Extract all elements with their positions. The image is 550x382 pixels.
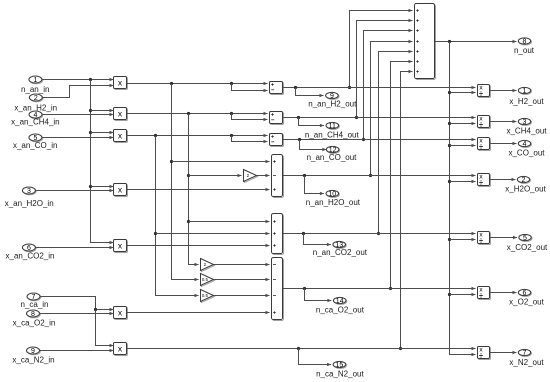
divide block for x_H2_out [479, 86, 491, 98]
junction CH4 fan tap [355, 116, 358, 119]
wire divide out to port 3 [490, 121, 517, 123]
wire port9 to PR7 in2 [40, 350, 114, 352]
wire port6 to PR5 in2 [36, 247, 114, 249]
svg-text:x_ca_N2_in: x_ca_N2_in [12, 356, 54, 365]
output port 5 x_CO2_out [520, 235, 532, 241]
product block PR2 n_an*x_CH4 [115, 109, 128, 121]
wire tap to port 14 [305, 289, 332, 301]
svg-text:3: 3 [523, 119, 527, 126]
svg-text:11: 11 [329, 123, 336, 130]
wire divide out to port 6 [490, 292, 517, 294]
wire divide out to port 7 [490, 352, 517, 354]
junction n_out tap [448, 40, 451, 43]
junction CO branch [230, 134, 233, 137]
output port 11 n_an_CH4_out [327, 123, 340, 129]
wire T3 out to S6 in2 [214, 279, 270, 281]
wire CO branch to S3 in2 [232, 136, 268, 142]
junction O2 fan tap [389, 287, 392, 290]
output port 13 n_an_CO2_out [334, 242, 347, 248]
input port 3 x_an_H2O_in [23, 188, 36, 195]
wire S5 out to divide D5 [283, 233, 476, 235]
junction H2 branch [230, 82, 233, 85]
wire S1 out to divide D1 [283, 87, 476, 89]
svg-text:x_O2_out: x_O2_out [509, 297, 544, 306]
wire n_an stub to PR4 in1 [91, 186, 114, 188]
svg-text:x_CO_out: x_CO_out [508, 149, 545, 158]
wire big sum out to port 8 [435, 41, 517, 43]
svg-text:n_ca_N2_out: n_ca_N2_out [316, 370, 364, 379]
big sum block n_out 7 inputs [416, 5, 436, 80]
divide block for x_N2_out [479, 348, 491, 360]
svg-text:0.5: 0.5 [202, 293, 209, 298]
svg-text:4: 4 [523, 141, 527, 148]
svg-text:n_an_H2_out: n_an_H2_out [308, 100, 357, 109]
svg-text:1: 1 [33, 77, 37, 84]
junction n_ca split [94, 308, 97, 311]
svg-text:n_an_CH4_out: n_an_CH4_out [305, 131, 360, 140]
junction H2 to S4 [170, 160, 173, 163]
wire H2O fan vertical to big sum [371, 42, 413, 176]
svg-text:x_an_CO2_in: x_an_CO2_in [6, 252, 55, 261]
junction n_an split [89, 78, 92, 81]
input port 4 x_an_CH4_in [30, 112, 43, 119]
svg-text:x_CO2_out: x_CO2_out [507, 243, 548, 252]
output port 3 x_CH4_out [519, 119, 531, 125]
input port 5 x_an_CO_in [30, 135, 43, 142]
wire H2 fan vertical to big sum [350, 11, 413, 88]
junction CH4 tap [187, 112, 190, 115]
product block PR5 n_an*x_CO2 [115, 241, 128, 253]
junction CO tap [154, 134, 157, 137]
wire tap to port 13 [304, 234, 331, 245]
wire PR6 out to S6 in4 [127, 312, 270, 314]
wire divide out to port 5 [490, 237, 518, 239]
output port 14 n_ca_O2_out [334, 298, 347, 304]
output port 2 x_H2O_out [518, 177, 530, 183]
svg-text:x_N2_out: x_N2_out [509, 358, 544, 367]
divide block for x_CO_out [479, 139, 491, 151]
wire CO fan vertical to big sum [364, 31, 413, 140]
svg-text:n_an_CO_out: n_an_CO_out [307, 153, 358, 162]
sum block S4 H2O 3 inputs [273, 156, 284, 198]
svg-text:7: 7 [523, 350, 527, 357]
wire n_an stub to PR2 in1 [91, 110, 114, 112]
wire H2 vertical to T3 [172, 84, 199, 280]
svg-text:n_out: n_out [514, 46, 535, 55]
output port 10 n_an_H2O_out [327, 191, 340, 197]
svg-text:8: 8 [523, 38, 527, 45]
svg-text:15: 15 [336, 362, 344, 369]
svg-text:5: 5 [523, 235, 527, 242]
junction port11 tap [297, 116, 300, 119]
svg-text:x_an_CO_in: x_an_CO_in [13, 141, 57, 150]
wire port5 to PR3 in2 [42, 137, 114, 139]
sum block S2 CH4 [271, 113, 284, 125]
product block PR4 n_an*x_H2O [115, 185, 128, 197]
output port 8 n_out [519, 39, 531, 45]
sum block S6 O2 4 inputs [273, 259, 284, 321]
output port 4 x_CO_out [519, 141, 531, 147]
wire PR5 out to S5 in3 [127, 245, 270, 247]
junction CH4 to T1 [187, 174, 190, 177]
junction port12 tap [298, 138, 301, 141]
svg-text:x_CH4_out: x_CH4_out [506, 127, 547, 136]
wire CO tap to S5 in2 [156, 233, 270, 235]
svg-text:n_ca_in: n_ca_in [20, 300, 48, 309]
junction H2 fan tap [348, 86, 351, 89]
svg-text:n_ca_O2_out: n_ca_O2_out [316, 306, 365, 315]
junction CO to S5 [154, 232, 157, 235]
wire n_an stub to PR3 in1 [91, 132, 114, 134]
wire O2 fan vertical to big sum [391, 62, 413, 289]
wire CO vertical to T4 [156, 136, 199, 296]
wire tap to port 15 [299, 349, 332, 365]
input port 2 x_an_H2_in [30, 95, 43, 102]
output port 9 n_an_H2_out [326, 93, 339, 99]
output port 6 x_O2_out [519, 290, 531, 296]
junction n_out to divide [448, 122, 451, 125]
wire PR2 out to S2 in1 [127, 113, 268, 115]
wire n_ca vertical to PR7 in1 [96, 310, 114, 346]
svg-text:6: 6 [523, 290, 527, 297]
input port 1 n_an_in [30, 77, 43, 84]
junction CO fan tap [362, 138, 365, 141]
wire divide out to port 4 [490, 143, 517, 145]
junction n_an to PR2 [89, 109, 92, 112]
svg-text:9: 9 [31, 348, 35, 355]
svg-text:n_an_in: n_an_in [21, 85, 49, 94]
wire S4 out to divide D4 [283, 175, 476, 177]
junction port10 tap [303, 174, 306, 177]
sum block S3 CO [271, 135, 284, 147]
svg-text:1: 1 [523, 88, 527, 95]
wire S2 out to divide D2 [283, 117, 476, 119]
junction n_out to divide [448, 293, 451, 296]
wire port2 jog to PR1 in2 [42, 86, 113, 98]
wire tap to port 9 [296, 88, 324, 96]
junction CO2 fan tap [377, 232, 380, 235]
junction port15 tap [297, 347, 300, 350]
divide block for x_O2_out [479, 288, 491, 300]
input port 8 x_ca_O2_in [27, 311, 40, 318]
svg-text:n_an_CO2_out: n_an_CO2_out [313, 248, 368, 257]
wire PR3 out to S3 in1 [127, 135, 268, 137]
svg-text:x_an_CH4_in: x_an_CH4_in [11, 118, 59, 127]
output port 7 x_N2_out [519, 350, 531, 356]
wire CH4 tap to T1 [189, 175, 242, 177]
wire CH4 vertical to T2 [189, 114, 199, 265]
output port 15 n_ca_N2_out [334, 362, 347, 368]
junction N2 fan tap [399, 347, 402, 350]
wire n_out stub to divide [450, 92, 476, 94]
wire port7 to PR6 in1 [40, 297, 113, 310]
junction port14 tap [303, 287, 306, 290]
svg-text:x_H2_out: x_H2_out [509, 97, 544, 106]
wire divide out to port 2 [490, 179, 516, 181]
sum block S1 H2 [271, 83, 284, 95]
output port 1 x_H2_out [519, 88, 531, 94]
svg-text:2: 2 [34, 95, 38, 102]
junction n_out to divide [448, 238, 451, 241]
wire port1 to PR1 in1 [42, 79, 114, 81]
svg-text:2: 2 [522, 177, 526, 184]
junction H2O fan tap [369, 174, 372, 177]
junction port9 tap [294, 86, 297, 89]
product block PR6 n_ca*x_O2 [115, 308, 128, 320]
wire PR7 out to divide D7 [127, 348, 476, 350]
wire tap to port 10 [305, 176, 324, 194]
wire n_out stub to divide [450, 294, 476, 296]
wire S6 out to divide D6 [283, 288, 476, 290]
svg-text:x_H2O_out: x_H2O_out [505, 185, 546, 194]
wire n_out stub to divide [450, 239, 476, 241]
sum block S5 CO2 3 inputs [273, 215, 284, 255]
junction CH4 to S5 [187, 220, 190, 223]
wire n_an vertical down to PR5 in1 [91, 80, 114, 243]
svg-text:14: 14 [336, 298, 344, 305]
wire divide out to port 1 [490, 90, 517, 92]
wire PR4 out to S4 in3 [127, 189, 270, 191]
wire CH4 tap to S5 in1 [189, 221, 270, 223]
wire port8 to PR6 in2 [40, 313, 114, 315]
wire T1 out to S4 in2 [257, 175, 270, 177]
product block PR1 n_an*x_H2 [115, 78, 128, 90]
svg-text:x_ca_O2_in: x_ca_O2_in [13, 319, 56, 328]
product block PR7 n_ca*x_N2 [115, 344, 128, 356]
gain block T4 value 0.5 [202, 291, 215, 303]
divide block for x_H2O_out [479, 175, 491, 187]
junction n_an to PR3 [89, 131, 92, 134]
svg-text:8: 8 [31, 311, 35, 318]
input port 7 n_ca_in [28, 294, 41, 301]
wire CH4 branch to S2 in2 [232, 114, 268, 120]
wire tap to port 12 [300, 140, 327, 150]
junction n_out to divide [448, 144, 451, 147]
junction port13 tap [302, 232, 305, 235]
gain block T1 value 2 [245, 171, 258, 183]
product block PR3 n_an*x_CO [115, 131, 128, 143]
wire n_out stub to divide [450, 145, 476, 147]
divide block for x_CH4_out [479, 117, 491, 129]
junction H2 tap [170, 82, 173, 85]
junction n_an to PR4 [89, 185, 92, 188]
junction n_out to divide [448, 180, 451, 183]
input port 6 x_an_CO2_in [23, 245, 36, 252]
wire port3 to PR4 in2 [36, 190, 114, 192]
wire n_out vertical down [450, 42, 476, 355]
wire S3 out to divide D3 [283, 139, 476, 141]
wire n_out stub to divide [450, 181, 476, 183]
junction n_out to divide [448, 91, 451, 94]
junction CH4 branch [230, 112, 233, 115]
svg-text:x_an_H2O_in: x_an_H2O_in [5, 199, 54, 208]
wire H2 tap to S4 in1 [172, 161, 270, 163]
divide block for x_CO2_out [479, 233, 491, 245]
gain block T2 value 2 [202, 260, 215, 272]
wire tap to port 11 [299, 118, 324, 126]
wire n_out stub to divide [450, 123, 476, 125]
wire port4 to PR2 in2 [42, 114, 113, 116]
input port 9 x_ca_N2_in [27, 348, 40, 355]
svg-text:n_an_H2O_out: n_an_H2O_out [306, 198, 361, 207]
svg-text:3: 3 [27, 188, 31, 195]
wire PR1 out to S1 in1 [127, 83, 268, 85]
svg-text:0.5: 0.5 [202, 277, 209, 282]
wire N2 fan vertical to big sum [401, 72, 413, 349]
wire CO2 fan vertical to big sum [379, 52, 413, 234]
wire T2 out to S6 in1 [214, 264, 270, 266]
wire H2 branch to S1 in2 [232, 84, 268, 91]
gain block T3 value 0.5 [202, 275, 215, 287]
wire T4 out to S6 in3 [214, 295, 270, 297]
wire CH4 fan vertical to big sum [357, 21, 413, 118]
output port 12 n_an_CO_out [327, 147, 340, 153]
